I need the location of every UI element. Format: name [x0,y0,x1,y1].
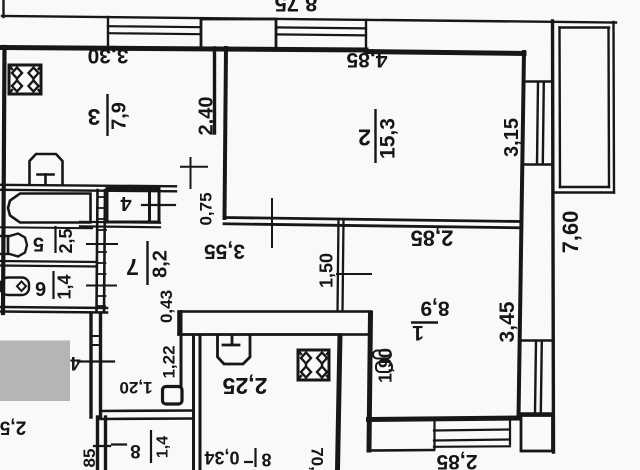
fixture small pills near room1 wall [373,351,392,373]
tick room8 label [112,443,126,445]
svg-text:0,75: 0,75 [197,192,216,225]
balcony right outer edge [612,22,615,193]
tick dimension 3.55 [271,199,273,247]
wall room3/room2 divider left face [213,48,216,133]
svg-text:1: 1 [412,321,424,344]
window bottom room1 glazing [434,430,510,431]
svg-text:3: 3 [88,104,101,130]
tick room5 [87,243,117,245]
wall corridor right vertical upper (double) [338,219,339,313]
wall right exterior face [553,21,554,452]
svg-text:15,3: 15,3 [377,118,400,159]
svg-text:8: 8 [130,440,141,461]
tick room4 [142,204,175,206]
wall room1 bottom [369,418,520,420]
svg-text:0,43: 0,43 [157,290,176,323]
tick neighbor 4 [78,360,114,362]
svg-text:4,85: 4,85 [346,48,387,71]
wire: window right closure vertical [365,20,367,49]
svg-text:3,30: 3,30 [88,44,129,67]
wall shaft left pair below bathrooms [89,313,92,417]
sink kitchen room3 [30,154,63,184]
wire: balcony left edge vertical [2,0,4,17]
svg-text:8: 8 [261,450,271,470]
wire: window sill lines right segment [276,27,366,28]
wall corridor top / room2 bottom (double) [224,218,521,222]
wall below room6 (double) [0,307,107,308]
tick shaft bottom [94,445,110,447]
svg-text:1,90: 1,90 [376,348,396,383]
svg-text:3,55: 3,55 [204,240,245,263]
svg-text:8,9: 8,9 [420,297,449,320]
svg-text:6: 6 [35,277,46,299]
svg-text:70,: 70, [308,447,327,470]
svg-text:2,40: 2,40 [196,97,218,136]
svg-text:0,34: 0,34 [204,448,239,468]
window right W1 (3.15) [524,80,553,82]
wall right interior face [519,52,525,418]
wire: top-left window closure vertical [107,17,109,48]
svg-text:2,25: 2,25 [222,373,267,399]
toilet room5 [0,234,27,257]
svg-text:7,60: 7,60 [558,211,583,254]
svg-text:1,4: 1,4 [55,274,75,299]
room 4 closet outline [107,189,159,223]
node bottom-right wall block [521,416,553,452]
svg-text:1,22: 1,22 [160,345,179,378]
wall room1 left vertical [369,313,371,450]
wire line under bathtub [0,227,92,228]
wire: window sill lines left segment [108,26,201,27]
wall room5/room6 divider (double) [0,261,97,262]
fixture room6 [0,278,29,296]
stove kitchen room3 [9,65,41,94]
node pier block between windows [201,19,276,49]
svg-text:7,9: 7,9 [109,102,131,130]
tick dimension 2.40 cross [190,158,192,188]
wall band between corridor and lower room (outlined) [179,312,371,335]
wall room3 bottom (double) [0,185,176,187]
svg-text:3,15: 3,15 [501,118,523,157]
svg-text:2,85: 2,85 [436,450,477,470]
svg-text:4: 4 [70,352,81,373]
node gray watermark box [0,341,70,402]
wire: bottom window outer line left [368,449,434,452]
svg-text:1,50: 1,50 [317,253,337,288]
balcony right inner rectangle [560,26,610,28]
bathtub room5 [8,194,91,223]
svg-text:2: 2 [358,125,371,151]
wall partition left of 2.25 room [180,312,183,388]
wire: building top wall [0,48,366,51]
wall room8 right / 2.25-room left (double pair) [192,335,195,470]
svg-text:2,5: 2,5 [0,417,26,438]
toilet lower room (2.25) [218,336,251,364]
wire: top outer thin line [2,16,616,23]
stove lower room (2.25) [298,350,329,380]
ladder partition wall bathrooms/corridor [97,190,98,312]
svg-text:85: 85 [80,449,99,468]
svg-text:2,5: 2,5 [56,228,76,253]
svg-text:8,2: 8,2 [150,250,172,278]
wall room8 top (double) [101,409,194,412]
wall room3/room2 divider right face [225,48,227,218]
svg-text:8,75: 8,75 [275,0,318,16]
wire: left exterior wall [3,47,5,313]
window right W2 (3.45) [521,339,554,341]
svg-text:4: 4 [120,192,132,214]
wall room4 right double inner line [148,189,151,222]
tick room6 [87,285,116,287]
node column block [163,387,183,405]
svg-text:7: 7 [126,254,139,280]
svg-text:2,85: 2,85 [411,226,454,251]
tick dimension 1.50 [337,273,371,275]
wall below room4 (double) [80,222,160,223]
svg-text:5: 5 [33,233,44,255]
svg-text:1,20: 1,20 [119,378,152,397]
svg-text:1,4: 1,4 [155,436,172,458]
wall room8 left lower pair [96,417,99,470]
svg-text:3,45: 3,45 [496,301,519,342]
wall corridor right vertical lower [338,334,341,470]
